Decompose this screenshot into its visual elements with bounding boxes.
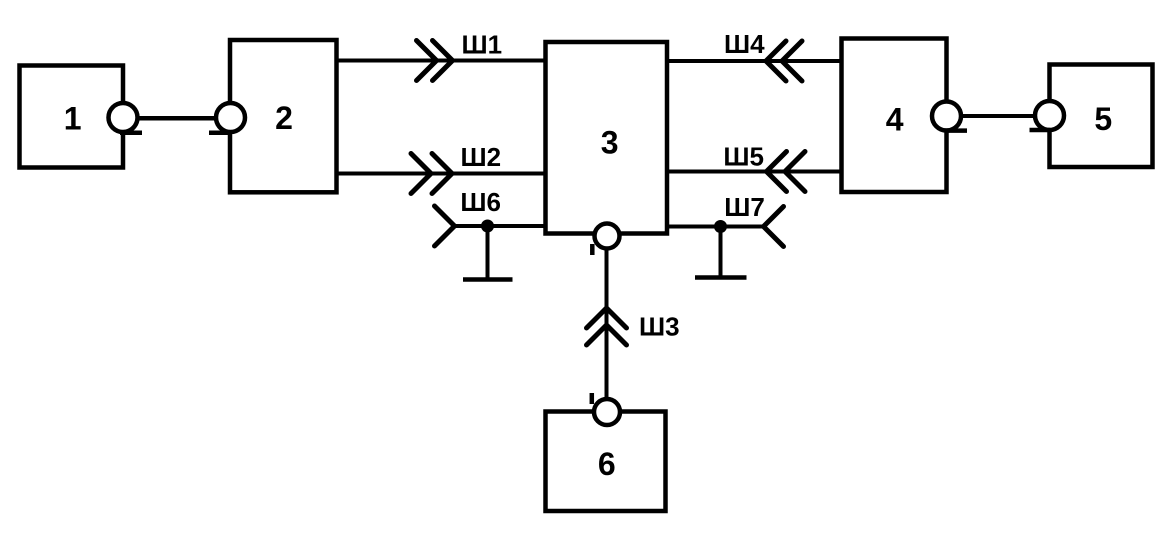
svg-text:Ш1: Ш1 xyxy=(462,29,503,59)
svg-text:3: 3 xyxy=(601,124,619,160)
svg-text:2: 2 xyxy=(275,100,293,136)
svg-text:5: 5 xyxy=(1094,101,1112,137)
svg-text:6: 6 xyxy=(598,446,616,482)
svg-text:Ш5: Ш5 xyxy=(723,141,764,171)
svg-text:Ш2: Ш2 xyxy=(461,142,502,172)
svg-text:Ш4: Ш4 xyxy=(724,29,765,59)
svg-text:Ш3: Ш3 xyxy=(639,312,680,342)
svg-text:Ш7: Ш7 xyxy=(724,192,765,222)
svg-text:Ш6: Ш6 xyxy=(460,187,501,217)
svg-text:4: 4 xyxy=(886,101,904,137)
svg-text:1: 1 xyxy=(64,101,82,137)
